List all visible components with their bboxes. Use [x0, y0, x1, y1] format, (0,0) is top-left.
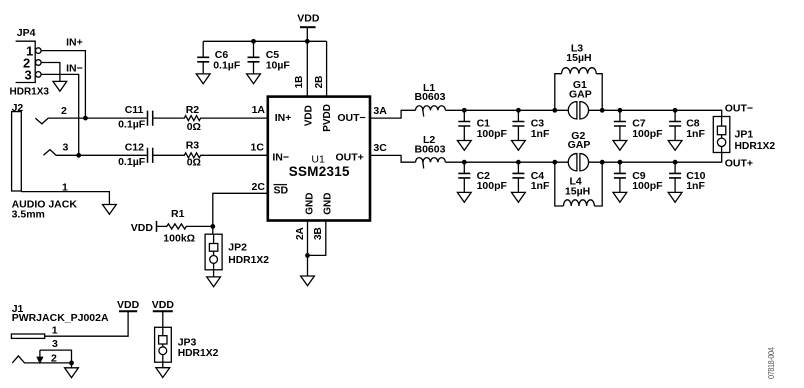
svg-text:0Ω: 0Ω	[187, 156, 201, 168]
svg-text:SD: SD	[274, 184, 289, 196]
svg-text:1nF: 1nF	[686, 180, 705, 192]
svg-text:2B: 2B	[314, 76, 325, 89]
svg-text:VDD: VDD	[304, 105, 315, 126]
svg-text:B0603: B0603	[415, 143, 446, 155]
svg-text:R1: R1	[171, 208, 185, 220]
svg-text:C12: C12	[125, 142, 144, 154]
svg-text:R3: R3	[186, 139, 200, 151]
svg-text:100pF: 100pF	[477, 180, 508, 192]
svg-text:10µF: 10µF	[266, 60, 291, 72]
svg-text:2C: 2C	[252, 181, 266, 193]
svg-text:GND: GND	[323, 193, 334, 215]
svg-text:15µH: 15µH	[565, 186, 590, 198]
svg-text:15µH: 15µH	[566, 52, 591, 64]
svg-text:IN+: IN+	[66, 36, 83, 48]
svg-text:3B: 3B	[313, 227, 324, 240]
svg-text:HDR1X2: HDR1X2	[178, 348, 219, 359]
svg-text:3C: 3C	[373, 142, 387, 154]
svg-text:OUT+: OUT+	[336, 151, 364, 163]
svg-text:100kΩ: 100kΩ	[163, 232, 195, 244]
svg-text:VDD: VDD	[152, 299, 175, 311]
svg-text:100pF: 100pF	[632, 128, 663, 140]
svg-text:JP3: JP3	[178, 336, 197, 348]
svg-text:2: 2	[51, 353, 57, 365]
svg-text:GAP: GAP	[569, 89, 592, 101]
svg-text:1nF: 1nF	[531, 128, 550, 140]
svg-text:OUT+: OUT+	[725, 158, 753, 170]
svg-text:3: 3	[52, 338, 58, 350]
svg-text:PWRJACK_PJ002A: PWRJACK_PJ002A	[12, 312, 109, 324]
svg-text:100pF: 100pF	[477, 128, 508, 140]
svg-text:OUT−: OUT−	[725, 103, 753, 115]
svg-text:0.1µF: 0.1µF	[118, 156, 146, 168]
svg-text:100pF: 100pF	[632, 180, 663, 192]
svg-text:SSM2315: SSM2315	[289, 164, 350, 179]
svg-text:0.1µF: 0.1µF	[213, 60, 241, 72]
svg-text:HDR1X2: HDR1X2	[735, 141, 776, 152]
svg-text:J2: J2	[12, 102, 24, 114]
svg-text:1nF: 1nF	[531, 180, 550, 192]
svg-text:2: 2	[61, 105, 67, 117]
svg-text:HDR1X3: HDR1X3	[10, 87, 50, 98]
svg-text:3A: 3A	[373, 105, 387, 117]
svg-text:JP4: JP4	[17, 27, 36, 39]
svg-text:GAP: GAP	[568, 139, 591, 151]
svg-text:1A: 1A	[252, 104, 266, 116]
svg-text:1: 1	[52, 325, 58, 337]
svg-text:1nF: 1nF	[686, 128, 705, 140]
svg-text:HDR1X2: HDR1X2	[228, 255, 269, 266]
svg-text:JP2: JP2	[228, 242, 247, 254]
svg-text:JP1: JP1	[735, 129, 754, 141]
svg-text:1B: 1B	[294, 76, 305, 89]
svg-text:2A: 2A	[295, 227, 306, 240]
svg-text:IN−: IN−	[66, 62, 83, 74]
svg-text:B0603: B0603	[415, 91, 446, 103]
svg-text:IN−: IN−	[272, 151, 289, 163]
svg-text:VDD: VDD	[117, 299, 140, 311]
svg-text:IN+: IN+	[275, 112, 292, 124]
svg-text:0Ω: 0Ω	[187, 121, 201, 133]
svg-text:VDD: VDD	[131, 222, 154, 234]
svg-text:3.5mm: 3.5mm	[12, 209, 45, 221]
svg-text:3: 3	[63, 142, 69, 154]
svg-text:PVDD: PVDD	[322, 104, 333, 132]
svg-text:07818-004: 07818-004	[767, 347, 777, 379]
svg-text:C11: C11	[125, 104, 144, 116]
svg-text:3: 3	[25, 67, 32, 82]
svg-text:OUT−: OUT−	[337, 112, 365, 124]
svg-text:R2: R2	[186, 104, 200, 116]
svg-text:GND: GND	[304, 193, 315, 215]
svg-text:1: 1	[62, 182, 68, 194]
svg-text:VDD: VDD	[297, 13, 320, 25]
svg-text:1C: 1C	[251, 141, 265, 153]
svg-text:0.1µF: 0.1µF	[118, 118, 146, 130]
